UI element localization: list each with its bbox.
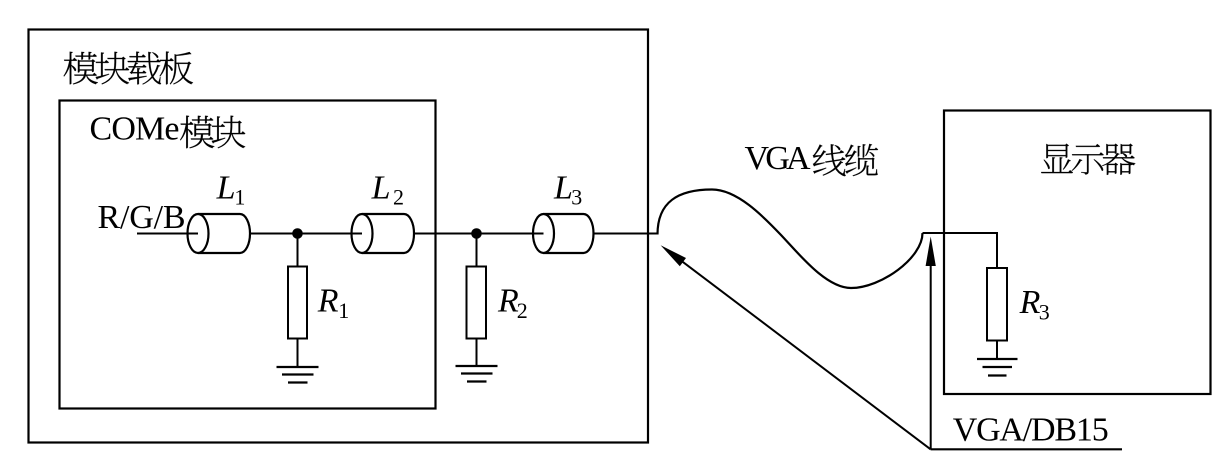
- svg-text:R: R: [1019, 284, 1041, 321]
- svg-text:COMe: COMe: [90, 111, 180, 148]
- wire R2 to ground: [476, 339, 478, 367]
- carrier board box: [29, 30, 649, 443]
- svg-text:2: 2: [393, 185, 404, 210]
- resistor R2: [467, 267, 487, 339]
- node junction 1: [292, 228, 303, 239]
- node junction 2: [471, 228, 482, 239]
- svg-text:R: R: [317, 282, 339, 319]
- svg-text:L: L: [216, 170, 236, 207]
- wire input lead: [137, 233, 198, 235]
- wire cable to monitor R3: [923, 233, 998, 268]
- svg-text:L: L: [553, 170, 573, 207]
- arrow to monitor connector: [926, 237, 936, 450]
- svg-text:L: L: [371, 170, 391, 207]
- ground under R1: [277, 367, 319, 383]
- svg-text:3: 3: [571, 185, 582, 210]
- svg-text:R: R: [497, 282, 519, 319]
- label 显示器: [1041, 144, 1135, 175]
- leader underline: [931, 448, 1122, 450]
- svg-text:3: 3: [1039, 300, 1050, 325]
- svg-text:VGA: VGA: [745, 140, 811, 177]
- VGA cable S-curve: [658, 190, 923, 289]
- resistor R3: [987, 268, 1007, 341]
- svg-text:1: 1: [338, 298, 349, 323]
- wire L3 to board edge: [594, 233, 658, 235]
- svg-text:VGA/DB15: VGA/DB15: [953, 412, 1109, 449]
- monitor box: [944, 111, 1211, 395]
- wire L1 to L2: [250, 233, 362, 235]
- inductor L2: [352, 214, 415, 253]
- arrow to board edge connector: [661, 245, 931, 449]
- wire L2 to L3: [414, 233, 544, 235]
- wire R1 to ground: [297, 339, 299, 368]
- wire R3 to ground: [996, 341, 998, 360]
- COMe module box: [60, 101, 436, 409]
- ground under R2: [456, 366, 498, 382]
- ground under R3: [977, 359, 1018, 376]
- resistor R1: [288, 267, 307, 339]
- inductor L3: [533, 214, 594, 253]
- label 模块载板: [64, 52, 193, 85]
- wire junction2 down: [476, 234, 478, 267]
- svg-text:1: 1: [234, 185, 245, 210]
- svg-text:R/G/B: R/G/B: [98, 199, 186, 236]
- wire junction1 down: [297, 234, 299, 267]
- inductor L1: [188, 214, 251, 253]
- svg-text:2: 2: [517, 298, 528, 323]
